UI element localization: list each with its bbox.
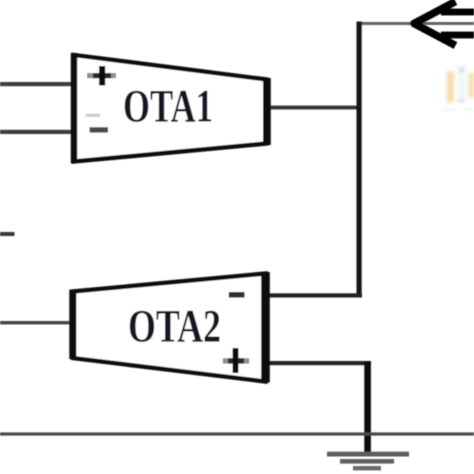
svg-text:OTA1: OTA1 xyxy=(123,81,213,133)
svg-text:OTA2: OTA2 xyxy=(128,301,221,353)
